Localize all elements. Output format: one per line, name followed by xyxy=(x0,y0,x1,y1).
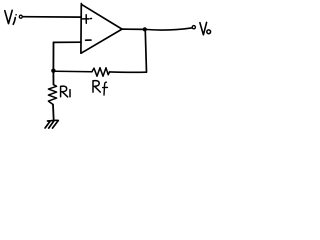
wire inverting node vertical xyxy=(52,42,54,70)
wire Rf to corner xyxy=(110,71,147,73)
wire feedback vertical xyxy=(145,31,146,72)
label Vo xyxy=(200,22,211,34)
input terminal xyxy=(19,15,22,18)
resistor R1 xyxy=(48,85,56,105)
ground xyxy=(45,120,58,128)
node junction B xyxy=(51,69,55,73)
label Vi xyxy=(5,10,17,24)
label Rf xyxy=(93,81,107,96)
node junction C xyxy=(143,27,147,31)
resistor Rf xyxy=(92,68,110,77)
wire - input xyxy=(54,41,82,43)
label R1 xyxy=(61,86,70,97)
wire node C to output terminal xyxy=(147,28,192,30)
pin - xyxy=(86,39,91,41)
wire op-amp output to node C xyxy=(122,28,145,30)
pin + xyxy=(83,15,92,23)
op-amp U1 xyxy=(81,4,122,54)
wire Vi to + input xyxy=(23,16,81,18)
wire R1 to ground xyxy=(52,105,55,121)
wire node B to Rf xyxy=(55,70,92,73)
wire node B to R1 xyxy=(52,72,54,85)
output terminal xyxy=(192,26,195,29)
